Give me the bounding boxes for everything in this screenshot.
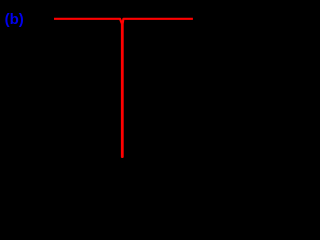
svg-text:(b): (b) [5,11,24,28]
red spectrum trace with narrow deep dip [54,19,193,157]
